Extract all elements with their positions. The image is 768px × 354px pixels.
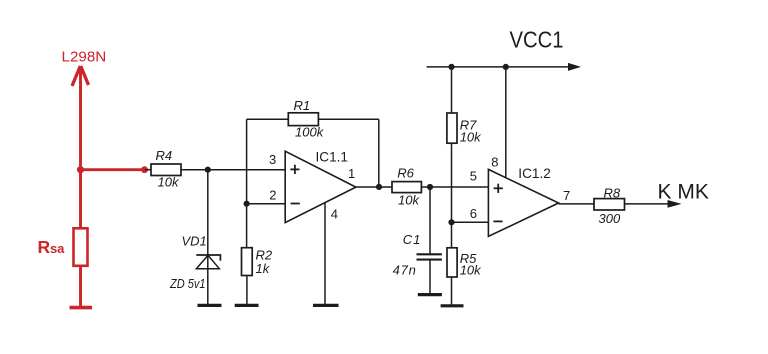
ground (R2)	[235, 304, 259, 307]
svg-text:VD1: VD1	[182, 233, 207, 248]
node junction pin2	[244, 201, 250, 207]
wire pin6 to IC1.2	[452, 221, 489, 223]
wire R6 to pin5 IC1.2	[421, 186, 488, 188]
ground (C1)	[418, 293, 442, 296]
node junction output IC1.1	[376, 184, 382, 190]
wire C1 bottom	[429, 260, 431, 294]
wire R5 bottom	[451, 277, 453, 305]
wire pin2 to IC1.1	[247, 203, 286, 205]
wire R5 top	[451, 222, 453, 248]
svg-text:C1: C1	[403, 232, 422, 247]
svg-text:10k: 10k	[460, 263, 482, 278]
svg-text:R4: R4	[156, 148, 173, 163]
wire red arrow to L298N	[72, 66, 89, 228]
svg-text:6: 6	[470, 206, 477, 221]
wire feedback top left	[247, 118, 289, 120]
wire R8 to output arrow	[625, 203, 669, 205]
node red dot at R4 input	[141, 166, 148, 173]
wire R2 bottom	[246, 276, 248, 305]
wire VCC1 rail	[427, 66, 571, 68]
wire IC1.1 output	[356, 186, 392, 188]
ground (R5)	[441, 304, 464, 307]
svg-text:R8: R8	[604, 185, 621, 200]
wire C1 top	[429, 187, 431, 254]
wire red dot to R4	[145, 169, 151, 171]
node junction rail pin8	[503, 64, 509, 70]
node junction at VD1	[205, 167, 211, 173]
node junction C1 top	[427, 184, 433, 190]
op-amp IC1.2	[488, 169, 558, 236]
svg-text:3: 3	[269, 152, 276, 167]
resistor R8	[594, 199, 625, 210]
wire output arrow head	[668, 200, 682, 208]
svg-text:R6: R6	[397, 166, 414, 181]
resistor R5	[447, 248, 457, 277]
wire R7 top	[451, 67, 453, 113]
svg-text:7: 7	[563, 188, 570, 203]
svg-text:1k: 1k	[256, 261, 271, 276]
svg-text:R1: R1	[294, 98, 311, 113]
svg-text:1: 1	[348, 166, 355, 181]
ground red terminal bar	[70, 306, 93, 310]
svg-text:2: 2	[269, 188, 276, 203]
pin + (IC1.1)	[290, 165, 299, 174]
wire feedback loop left leg	[246, 119, 248, 203]
resistor R4	[151, 164, 181, 176]
svg-text:5: 5	[470, 168, 477, 183]
ground (IC1.1 pin4)	[313, 304, 339, 307]
wire R2 top	[246, 204, 248, 248]
wire pin4 down	[324, 203, 326, 304]
svg-text:4: 4	[331, 207, 338, 222]
svg-text:IC1.2: IC1.2	[518, 166, 551, 181]
svg-text:ZD 5v1: ZD 5v1	[169, 276, 205, 291]
diode VD1 (zener)	[196, 255, 220, 269]
capacitor C1	[417, 254, 442, 259]
svg-text:8: 8	[491, 155, 498, 170]
wire VCC1 arrow head	[568, 63, 581, 71]
svg-text:300: 300	[599, 211, 621, 226]
node junction rail R7	[448, 64, 454, 70]
op-amp IC1.1	[285, 151, 356, 222]
svg-text:10k: 10k	[158, 174, 180, 189]
resistor R2	[242, 248, 253, 276]
svg-text:47n: 47n	[393, 262, 417, 277]
wire feedback top right	[318, 118, 378, 120]
svg-text:VCC1: VCC1	[510, 26, 564, 52]
wire IC1.2 output	[559, 203, 594, 205]
node junction pin6	[448, 219, 454, 225]
pin - (IC1.1)	[291, 203, 300, 205]
resistor Rsa	[74, 228, 88, 306]
resistor R6	[392, 182, 421, 193]
ground (VD1)	[198, 304, 222, 307]
resistor R7	[447, 113, 457, 143]
wire R4 to pin3 IC1.1	[181, 169, 285, 171]
pin + (IC1.2)	[494, 184, 503, 193]
wire pin8 down	[505, 67, 507, 180]
svg-text:10k: 10k	[398, 193, 420, 208]
wire red horizontal to R4	[81, 168, 146, 171]
pin - (IC1.2)	[493, 220, 502, 222]
wire VD1 branch down	[207, 170, 209, 304]
resistor R1	[288, 113, 318, 126]
svg-text:L298N: L298N	[62, 48, 107, 65]
node junction red (sense node)	[77, 166, 84, 173]
svg-text:10k: 10k	[460, 129, 482, 144]
svg-text:K MK: K MK	[658, 180, 709, 203]
svg-text:100k: 100k	[295, 125, 325, 140]
wire R7 bottom to pin6 node	[451, 143, 453, 222]
svg-text:IC1.1: IC1.1	[316, 149, 349, 164]
wire feedback right leg down to output	[378, 119, 380, 187]
